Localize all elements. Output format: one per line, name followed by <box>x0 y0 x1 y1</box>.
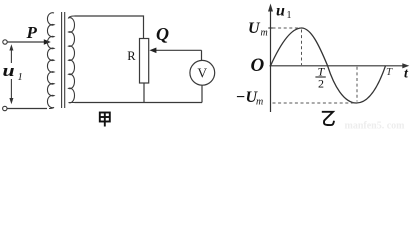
caption yi (CJK drawn) <box>322 112 334 125</box>
wire: secondary top to rheostat <box>75 16 144 39</box>
Um tick <box>268 27 272 29</box>
terminal top-left <box>3 40 7 44</box>
dashed: peak down to axis <box>301 30 303 66</box>
svg-text:R: R <box>127 49 136 63</box>
wire: Q slider to voltmeter <box>201 50 203 60</box>
svg-text:1: 1 <box>287 10 292 21</box>
rheostat R body <box>140 39 149 84</box>
svg-text:m: m <box>256 97 263 108</box>
terminal bottom-left <box>3 106 7 110</box>
svg-text:Q: Q <box>156 24 169 44</box>
slider arrow P head <box>44 39 51 45</box>
voltmeter V <box>190 60 215 85</box>
svg-text:T: T <box>386 66 393 78</box>
svg-text:O: O <box>251 55 265 76</box>
wire: rheostat bottom to bottom rail <box>143 83 145 103</box>
wire: bottom terminal to primary coil bottom <box>7 108 47 110</box>
t axis <box>270 65 405 67</box>
svg-text:2: 2 <box>318 77 324 91</box>
svg-text:V: V <box>197 66 207 81</box>
u axis <box>270 9 272 112</box>
svg-text:u: u <box>3 62 15 80</box>
sine curve <box>271 28 386 103</box>
bottom rail of secondary circuit <box>75 102 203 104</box>
dashed: minimum up to axis <box>356 67 358 102</box>
svg-text:u: u <box>276 3 285 20</box>
secondary coil (right winding, 6 loops) <box>69 16 75 103</box>
iron core (two bars) <box>61 12 63 108</box>
svg-text:P: P <box>26 23 38 42</box>
primary coil (left winding, 8 loops) <box>47 13 54 109</box>
svg-text:1: 1 <box>18 72 23 83</box>
svg-text:manfen5. com: manfen5. com <box>345 120 406 130</box>
wire: top terminal to slider P <box>7 41 44 43</box>
wire: voltmeter to bottom rail <box>201 85 203 102</box>
svg-text:m: m <box>261 28 268 39</box>
dashed: Um level to peak <box>273 27 302 29</box>
dashed: -Um level to minimum <box>273 102 357 104</box>
slider arrow Q (points left into R) <box>156 49 202 51</box>
voltage arrow u1 upper (points up) <box>10 49 12 64</box>
caption jia (CJK drawn) <box>100 113 110 127</box>
voltage arrow u1 lower (points down) <box>10 79 12 99</box>
svg-text:U: U <box>248 20 261 37</box>
